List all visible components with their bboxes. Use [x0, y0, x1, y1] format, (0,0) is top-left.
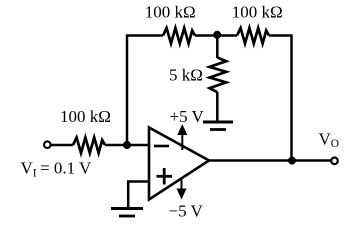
wire input to resistor [51, 144, 73, 147]
wire top feedback horizontal [127, 36, 163, 146]
ground (below 5 kΩ) [203, 122, 233, 130]
node output junction [288, 157, 296, 165]
svg-text:100 kΩ: 100 kΩ [232, 2, 283, 21]
op-amp plus sign [157, 168, 173, 185]
node top junction [213, 31, 221, 39]
resistor R2 100 kΩ (top right) [237, 28, 269, 44]
svg-text:5 kΩ: 5 kΩ [169, 66, 203, 85]
wire non-inverting input to ground [128, 182, 149, 208]
svg-text:100 kΩ: 100 kΩ [60, 107, 111, 126]
resistor R1 100 kΩ (top left) [163, 28, 195, 44]
node inverting input junction [123, 141, 131, 149]
wire 5k bottom lead [216, 92, 219, 121]
wire between top resistors [195, 34, 237, 37]
wire 5k top lead [216, 36, 219, 59]
+5 V supply arrow [177, 124, 187, 150]
resistor R3 5 kΩ (vertical) [210, 58, 227, 93]
-5 V supply arrow [177, 179, 187, 200]
wire input resistor to op-amp inverting input [105, 144, 150, 147]
op-amp minus sign [154, 145, 169, 148]
svg-text:−5 V: −5 V [169, 202, 204, 221]
ground (non-inverting input) [111, 209, 143, 217]
svg-text:VI = 0.1 V: VI = 0.1 V [21, 159, 93, 180]
svg-text:+5 V: +5 V [170, 107, 205, 126]
output terminal circle [331, 158, 338, 165]
input terminal circle [44, 141, 51, 148]
wire output [209, 159, 331, 162]
op-amp U1 triangle [149, 128, 209, 200]
wire top right corner down to output node [269, 36, 292, 161]
resistor R4 100 kΩ (input) [73, 138, 105, 154]
svg-text:100 kΩ: 100 kΩ [145, 2, 196, 21]
